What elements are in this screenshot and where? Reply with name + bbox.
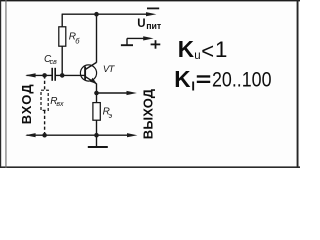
arrowhead bottom left (25, 133, 35, 137)
border frame bottom (0, 166, 300, 168)
border frame right (297, 0, 299, 168)
wire: left vertical from top rail to Rb (61, 14, 63, 27)
transistor VT base bar (84, 66, 86, 79)
arrowhead input left (25, 73, 35, 77)
junction dot top rail (94, 12, 99, 17)
border frame left edge (0, 0, 1, 168)
arrowhead output top right (127, 91, 137, 95)
wire: capacitor to transistor base (56, 74, 85, 76)
transistor VT circle (80, 65, 96, 81)
transistor VT collector lead (85, 62, 96, 69)
junction dot emitter/output (94, 91, 99, 96)
ground stub (96, 135, 98, 146)
junction dot bottom Rbx (42, 133, 47, 138)
svg-text:I: I (191, 79, 195, 94)
wire: output top line (97, 92, 129, 94)
svg-text:1: 1 (215, 37, 228, 62)
svg-text:ВЫХОД: ВЫХОД (140, 88, 155, 139)
minus sign over rail arrow (147, 7, 159, 9)
junction dot base/Rb (60, 73, 65, 78)
wire: collector vertical (96, 14, 98, 62)
svg-text:ВХОД: ВХОД (19, 83, 34, 124)
supply plus line to chassis (127, 37, 146, 39)
svg-text:вх: вх (56, 101, 64, 108)
svg-text:<: < (201, 39, 214, 64)
wire: input line from arrow to capacitor (27, 74, 52, 76)
border frame top (0, 0, 300, 1)
capacitor Ccb right plate (54, 68, 56, 81)
svg-text:э: э (109, 113, 113, 120)
wire: top rail horizontal (62, 13, 148, 15)
svg-text:св: св (50, 59, 58, 66)
junction dot input/Rbx (42, 73, 47, 78)
transistor emitter arrowhead (90, 78, 97, 84)
svg-text:K: K (178, 36, 194, 62)
svg-text:u: u (194, 50, 200, 62)
Rbx dashed lead bottom (44, 110, 46, 135)
transistor VT emitter lead (85, 76, 96, 83)
resistor Rb body (59, 27, 66, 46)
supply chassis bar (121, 44, 133, 46)
wire: bottom rail (27, 134, 129, 136)
supply chassis drop (126, 38, 128, 44)
plus sign horizontal (151, 43, 161, 45)
svg-text:пит: пит (146, 21, 162, 31)
resistor Re body (93, 103, 100, 121)
junction dot bottom Re (94, 133, 99, 138)
wire: Re bottom to ground rail (96, 120, 98, 135)
ground bar (88, 146, 108, 148)
border frame left inner line (5, 0, 6, 168)
arrowhead plus line (143, 36, 153, 40)
capacitor Ccb left plate (51, 68, 53, 81)
svg-text:VT: VT (103, 64, 116, 75)
svg-text:U: U (137, 18, 145, 30)
arrowhead top rail right (146, 12, 156, 16)
Rbx dashed lead top (44, 75, 46, 90)
wire: emitter vertical down (96, 84, 98, 103)
svg-text:20..100: 20..100 (212, 67, 272, 91)
svg-text:K: K (174, 66, 190, 92)
arrowhead output bottom right (127, 133, 137, 137)
wire: Rb bottom to base line (61, 46, 63, 75)
plus sign vertical (155, 40, 157, 49)
resistor Rbx dashed body (41, 90, 48, 110)
